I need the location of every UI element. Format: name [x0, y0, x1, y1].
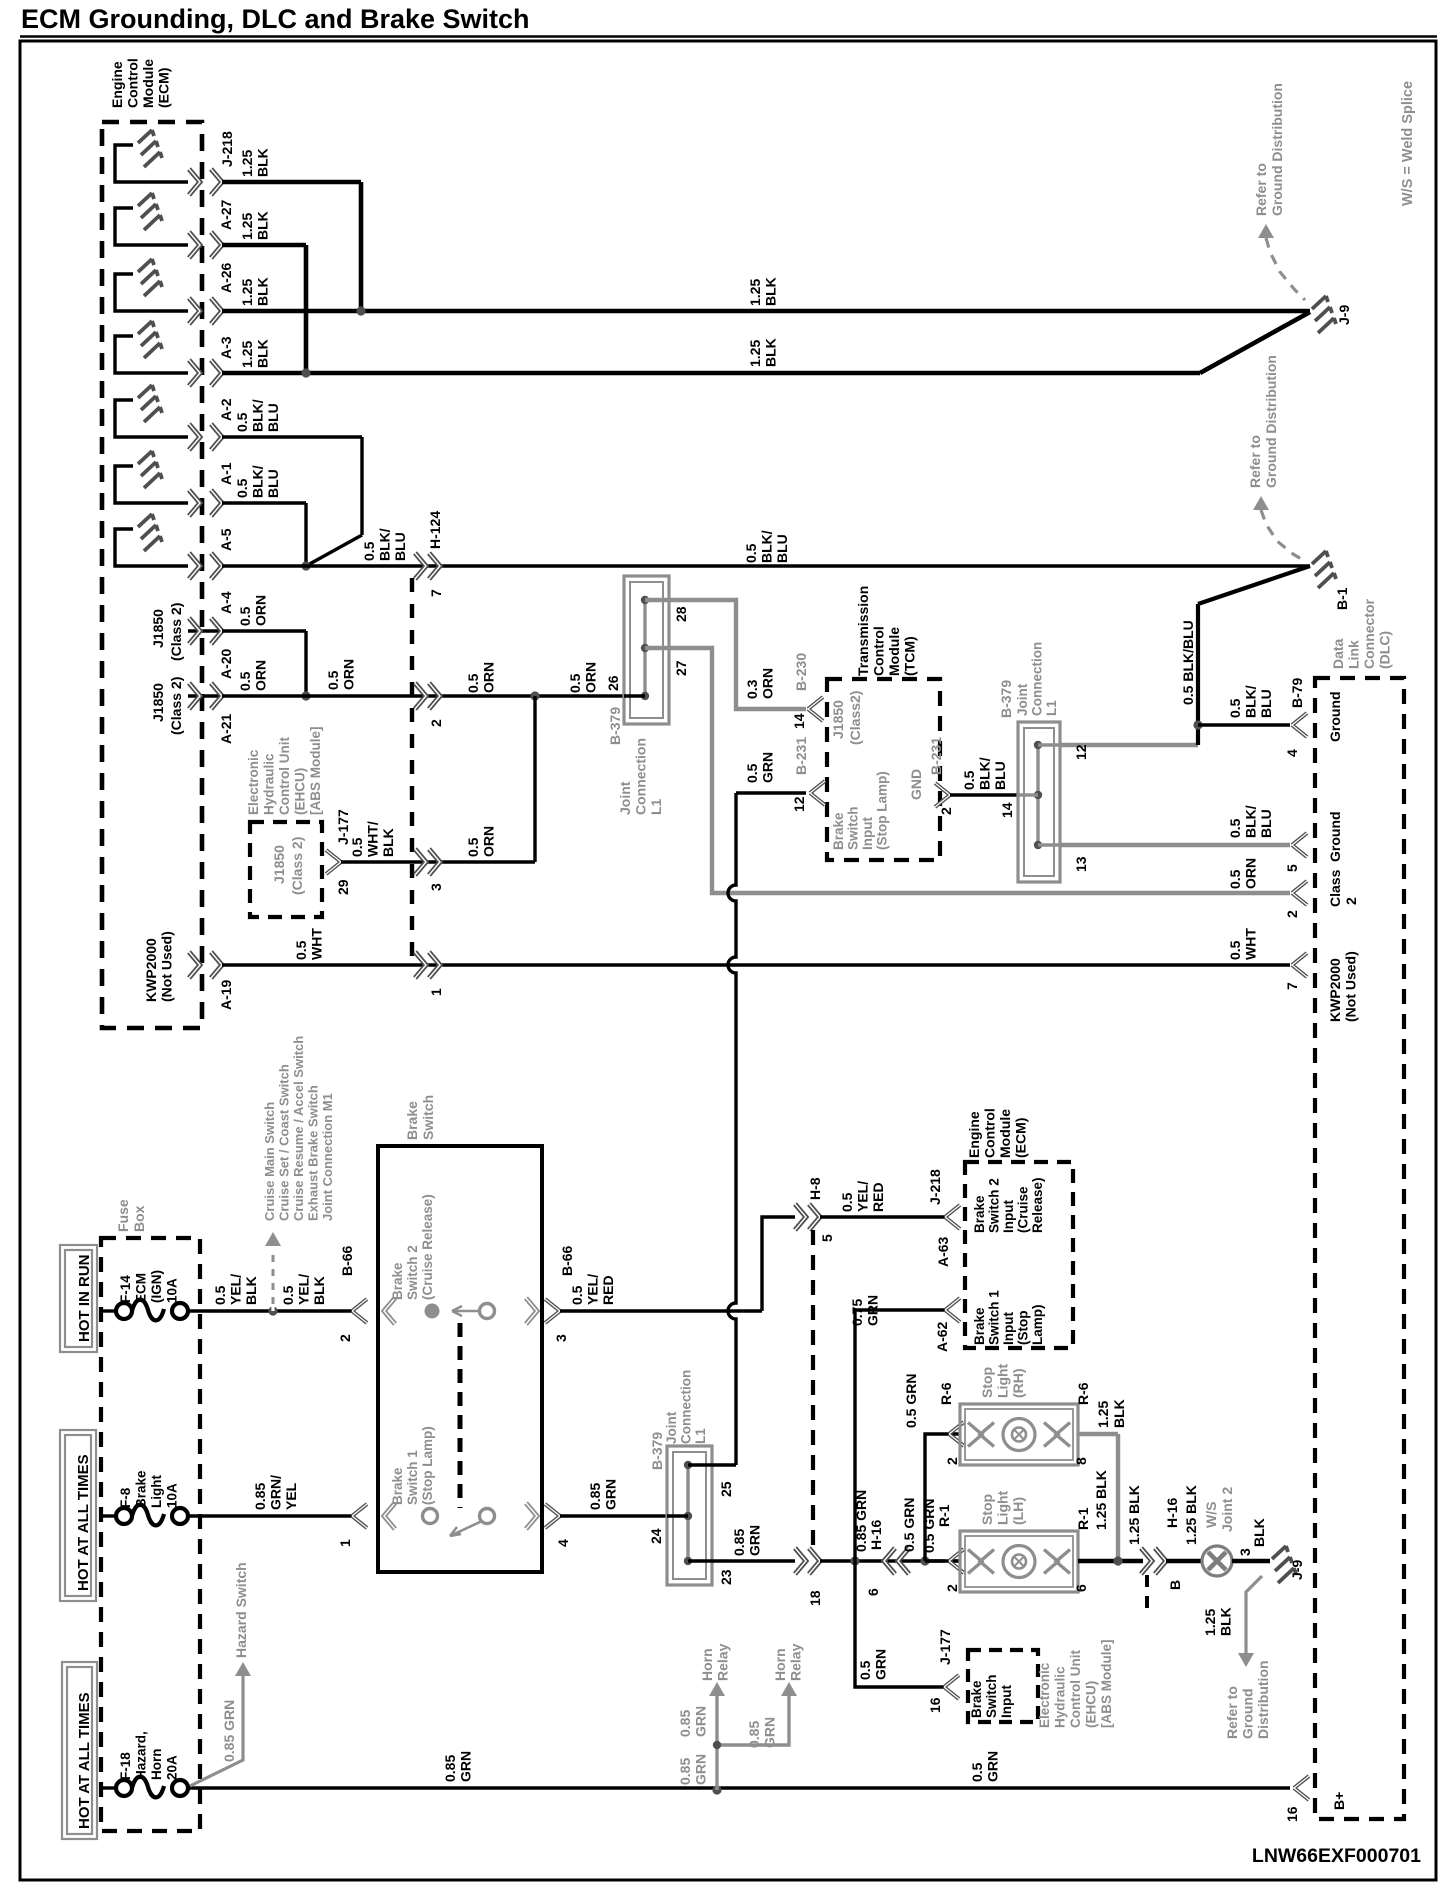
svg-text:(IGN): (IGN): [149, 1270, 164, 1303]
svg-text:BLK: BLK: [311, 1276, 327, 1305]
svg-text:KWP2000: KWP2000: [143, 938, 159, 1002]
svg-text:Light: Light: [995, 1490, 1011, 1525]
svg-text:10A: 10A: [165, 1483, 180, 1508]
svg-text:26: 26: [605, 675, 621, 691]
svg-text:25: 25: [718, 1481, 734, 1497]
svg-text:24: 24: [648, 1528, 664, 1544]
svg-text:Input: Input: [999, 1685, 1014, 1718]
svg-text:Electronic: Electronic: [246, 749, 261, 815]
svg-text:Relay: Relay: [788, 1643, 804, 1681]
svg-text:0.85: 0.85: [746, 1721, 762, 1748]
svg-text:W/S: W/S: [1203, 1502, 1219, 1528]
svg-text:1.25: 1.25: [239, 213, 255, 240]
svg-text:H-124: H-124: [427, 511, 443, 549]
svg-text:Horn: Horn: [149, 1749, 164, 1781]
svg-text:ORN: ORN: [1243, 858, 1259, 889]
svg-text:B-66: B-66: [339, 1245, 355, 1276]
svg-text:A-20: A-20: [218, 648, 234, 679]
svg-text:Connection: Connection: [633, 738, 649, 815]
svg-text:BLK/: BLK/: [250, 465, 266, 498]
svg-text:Stop: Stop: [979, 1367, 995, 1398]
svg-text:F-8: F-8: [118, 1487, 133, 1508]
svg-text:0.85: 0.85: [442, 1755, 458, 1782]
svg-text:GRN: GRN: [985, 1751, 1001, 1782]
svg-text:Control: Control: [125, 58, 141, 108]
svg-text:[ABS Module]: [ABS Module]: [308, 727, 323, 816]
svg-text:ORN: ORN: [341, 659, 357, 690]
svg-text:0.85: 0.85: [677, 1710, 693, 1737]
svg-text:GRN: GRN: [693, 1706, 709, 1737]
svg-text:Control Unit: Control Unit: [1068, 1650, 1083, 1728]
svg-text:Joint Connection M1: Joint Connection M1: [320, 1093, 335, 1221]
svg-text:Hazard Switch: Hazard Switch: [233, 1562, 249, 1658]
svg-text:18: 18: [807, 1590, 823, 1606]
svg-text:BLK: BLK: [1218, 1607, 1234, 1636]
svg-text:H-16: H-16: [1164, 1497, 1180, 1528]
svg-text:0.5: 0.5: [212, 1285, 228, 1305]
svg-text:1.25: 1.25: [1202, 1609, 1218, 1636]
svg-text:1.25: 1.25: [747, 279, 763, 306]
svg-text:3: 3: [553, 1334, 569, 1342]
svg-text:BLK: BLK: [255, 339, 271, 368]
svg-text:BLK/: BLK/: [377, 528, 393, 561]
svg-text:0.5: 0.5: [234, 412, 250, 432]
svg-text:L1: L1: [648, 798, 664, 815]
svg-text:(EHCU): (EHCU): [1084, 1681, 1099, 1728]
svg-text:GRN: GRN: [603, 1479, 619, 1510]
svg-text:(Class 2): (Class 2): [168, 677, 184, 735]
svg-text:BLK: BLK: [255, 148, 271, 177]
svg-text:Joint: Joint: [617, 781, 633, 815]
svg-text:BLK/: BLK/: [1243, 805, 1259, 838]
svg-text:H-16: H-16: [868, 1519, 884, 1550]
svg-text:B-231: B-231: [793, 737, 809, 775]
svg-text:29: 29: [335, 879, 351, 895]
svg-text:0.5: 0.5: [361, 541, 377, 561]
svg-text:0.5: 0.5: [465, 673, 481, 693]
svg-text:Hydraulic: Hydraulic: [262, 753, 277, 815]
svg-text:2: 2: [428, 719, 444, 727]
svg-text:GRN: GRN: [747, 1525, 763, 1556]
svg-text:0.5: 0.5: [280, 1285, 296, 1305]
svg-text:6: 6: [1073, 1584, 1089, 1592]
svg-text:ORN: ORN: [583, 662, 599, 693]
svg-text:Light: Light: [149, 1475, 164, 1508]
svg-text:0.5: 0.5: [569, 1285, 585, 1305]
svg-text:0.85: 0.85: [587, 1483, 603, 1510]
svg-text:(Stop Lamp): (Stop Lamp): [875, 771, 890, 850]
svg-text:Link: Link: [1346, 640, 1362, 669]
svg-text:GRN: GRN: [458, 1751, 474, 1782]
svg-text:Brake: Brake: [390, 1262, 405, 1300]
svg-text:1.25: 1.25: [747, 340, 763, 367]
svg-text:B-231: B-231: [928, 737, 944, 775]
svg-text:(Cruise: (Cruise: [1016, 1186, 1031, 1233]
svg-text:0.5: 0.5: [839, 1192, 855, 1212]
svg-text:Brake: Brake: [831, 812, 846, 850]
svg-text:Switch 1: Switch 1: [405, 1450, 420, 1505]
svg-text:W/S = Weld Splice: W/S = Weld Splice: [1400, 81, 1416, 206]
svg-text:B-379: B-379: [649, 1432, 665, 1470]
svg-text:Lamp): Lamp): [1030, 1305, 1045, 1346]
svg-text:28: 28: [673, 606, 689, 622]
svg-text:3: 3: [428, 883, 444, 891]
svg-text:Connector: Connector: [1361, 598, 1377, 669]
svg-text:Brake: Brake: [969, 1680, 984, 1718]
svg-text:Input: Input: [1001, 1312, 1016, 1345]
svg-text:14: 14: [791, 713, 807, 729]
svg-text:A-27: A-27: [218, 199, 234, 230]
svg-text:A-3: A-3: [218, 336, 234, 359]
svg-text:L1: L1: [1044, 700, 1059, 716]
svg-text:A-1: A-1: [218, 462, 234, 485]
svg-text:23: 23: [718, 1569, 734, 1585]
svg-text:12: 12: [791, 796, 807, 812]
svg-text:Electronic: Electronic: [1037, 1662, 1052, 1728]
svg-text:YEL/: YEL/: [228, 1274, 244, 1305]
svg-text:BLK: BLK: [763, 277, 779, 306]
svg-text:0.5: 0.5: [293, 940, 309, 960]
svg-text:1.25: 1.25: [239, 341, 255, 368]
svg-text:Module: Module: [886, 627, 902, 676]
svg-text:GRN: GRN: [760, 752, 776, 783]
svg-text:5: 5: [1284, 864, 1300, 872]
svg-text:GRN: GRN: [873, 1649, 889, 1680]
svg-text:Cruise Resume / Accel Switch: Cruise Resume / Accel Switch: [291, 1036, 306, 1221]
svg-text:R-6: R-6: [938, 1382, 954, 1405]
svg-text:KWP2000: KWP2000: [1327, 958, 1343, 1022]
svg-text:0.5 GRN: 0.5 GRN: [903, 1374, 919, 1428]
svg-text:14: 14: [999, 802, 1015, 818]
svg-text:B-1: B-1: [1334, 587, 1350, 610]
svg-text:4: 4: [1284, 749, 1300, 757]
svg-text:Hazard,: Hazard,: [134, 1731, 149, 1780]
svg-text:Module: Module: [997, 1109, 1013, 1158]
svg-text:Box: Box: [131, 1205, 147, 1232]
svg-text:Refer to: Refer to: [1224, 1686, 1240, 1739]
svg-text:BLU: BLU: [265, 469, 281, 498]
svg-text:0.5: 0.5: [567, 673, 583, 693]
svg-text:0.5: 0.5: [1227, 818, 1243, 838]
svg-text:Module: Module: [140, 59, 156, 108]
svg-text:B: B: [1167, 1580, 1183, 1590]
svg-text:Input: Input: [1001, 1200, 1016, 1233]
svg-text:Transmission: Transmission: [855, 586, 871, 676]
svg-text:16: 16: [927, 1697, 943, 1713]
svg-text:0.85: 0.85: [677, 1758, 693, 1785]
svg-text:BLU: BLU: [774, 534, 790, 563]
svg-text:A-5: A-5: [218, 528, 234, 551]
svg-text:Control Unit: Control Unit: [277, 737, 292, 815]
svg-text:6: 6: [865, 1588, 881, 1596]
svg-text:Switch: Switch: [420, 1095, 436, 1140]
svg-text:R-1: R-1: [936, 1504, 952, 1527]
svg-text:Control: Control: [871, 626, 887, 676]
svg-text:0.5: 0.5: [744, 763, 760, 783]
svg-text:J-177: J-177: [937, 1629, 953, 1665]
svg-text:YEL/: YEL/: [585, 1274, 601, 1305]
svg-text:Switch 1: Switch 1: [987, 1290, 1002, 1345]
svg-text:WHT: WHT: [1243, 928, 1259, 960]
svg-text:GRN: GRN: [865, 1295, 881, 1326]
svg-text:Brake: Brake: [134, 1470, 149, 1508]
svg-text:B+: B+: [1331, 1792, 1347, 1810]
svg-text:WHT: WHT: [309, 928, 325, 960]
svg-text:Hydraulic: Hydraulic: [1053, 1666, 1068, 1728]
svg-text:YEL/: YEL/: [855, 1181, 871, 1212]
svg-text:A-2: A-2: [218, 398, 234, 421]
svg-text:B-230: B-230: [793, 653, 809, 691]
svg-text:Exhaust Brake Switch: Exhaust Brake Switch: [306, 1085, 321, 1221]
svg-text:ORN: ORN: [253, 660, 269, 691]
svg-text:0.5: 0.5: [237, 671, 253, 691]
svg-text:10A: 10A: [165, 1278, 180, 1303]
svg-text:RED: RED: [600, 1275, 616, 1305]
svg-text:0.5: 0.5: [961, 770, 977, 790]
svg-text:0.85 GRN: 0.85 GRN: [853, 1490, 869, 1552]
svg-text:Cruise Set / Coast Switch: Cruise Set / Coast Switch: [277, 1064, 292, 1221]
svg-text:Ground: Ground: [1327, 691, 1343, 742]
svg-text:A-19: A-19: [218, 979, 234, 1010]
svg-text:8: 8: [1073, 1457, 1089, 1465]
svg-text:Horn: Horn: [772, 1648, 788, 1681]
svg-text:0.5: 0.5: [234, 478, 250, 498]
svg-text:J-9: J-9: [1336, 305, 1352, 325]
svg-text:0.5: 0.5: [1227, 698, 1243, 718]
svg-text:R-1: R-1: [1075, 1507, 1091, 1530]
svg-text:0.5: 0.5: [1227, 869, 1243, 889]
svg-text:F-14: F-14: [118, 1275, 133, 1303]
svg-text:16: 16: [1284, 1806, 1300, 1822]
svg-text:ECM Grounding, DLC and Brake S: ECM Grounding, DLC and Brake Switch: [21, 4, 530, 34]
svg-text:BLK/: BLK/: [250, 399, 266, 432]
svg-text:BLU: BLU: [1258, 689, 1274, 718]
svg-text:BLK: BLK: [243, 1276, 259, 1305]
svg-text:J-218: J-218: [927, 1169, 943, 1205]
svg-text:7: 7: [1284, 982, 1300, 990]
svg-text:(Cruise Release): (Cruise Release): [420, 1194, 435, 1300]
svg-text:[ABS Module]: [ABS Module]: [1099, 1640, 1114, 1729]
svg-text:H-8: H-8: [807, 1177, 823, 1200]
svg-text:Joint: Joint: [1015, 683, 1030, 716]
svg-text:1.25: 1.25: [1095, 1401, 1111, 1428]
svg-text:Joint: Joint: [664, 1411, 679, 1444]
svg-text:(Stop Lamp): (Stop Lamp): [420, 1426, 435, 1505]
svg-text:2: 2: [337, 1334, 353, 1342]
svg-text:BLU: BLU: [392, 532, 408, 561]
svg-text:Brake: Brake: [972, 1195, 987, 1233]
svg-text:1.25 BLK: 1.25 BLK: [1183, 1485, 1199, 1545]
svg-text:A-4: A-4: [218, 591, 234, 614]
svg-text:Joint 2: Joint 2: [1219, 1487, 1235, 1532]
svg-text:0.75: 0.75: [849, 1299, 865, 1326]
svg-text:J1850: J1850: [150, 609, 166, 648]
svg-text:12: 12: [1073, 744, 1089, 760]
svg-text:5: 5: [819, 1234, 835, 1242]
svg-text:27: 27: [673, 660, 689, 676]
svg-text:0.85: 0.85: [731, 1529, 747, 1556]
svg-text:0.5: 0.5: [743, 543, 759, 563]
svg-text:3: 3: [1237, 1548, 1253, 1556]
svg-text:B-79: B-79: [1289, 677, 1305, 708]
svg-text:BLK/: BLK/: [977, 757, 993, 790]
svg-text:YEL: YEL: [283, 1482, 299, 1510]
svg-text:BLK: BLK: [255, 211, 271, 240]
svg-text:2: 2: [944, 1457, 960, 1465]
svg-text:(DLC): (DLC): [1377, 631, 1393, 669]
svg-text:ECM: ECM: [134, 1273, 149, 1303]
svg-text:(Stop: (Stop: [1016, 1311, 1031, 1346]
svg-text:Ground Distribution: Ground Distribution: [1263, 355, 1279, 488]
svg-text:BLK: BLK: [1251, 1518, 1267, 1547]
svg-text:Connection: Connection: [1030, 642, 1045, 716]
svg-text:Light: Light: [995, 1363, 1011, 1398]
svg-text:A-63: A-63: [935, 1236, 951, 1267]
svg-text:J1850: J1850: [271, 845, 287, 884]
svg-text:1.25: 1.25: [239, 150, 255, 177]
svg-text:A-26: A-26: [218, 262, 234, 293]
svg-text:Control: Control: [982, 1108, 998, 1158]
svg-text:R-6: R-6: [1075, 1382, 1091, 1405]
svg-text:0.5 GRN: 0.5 GRN: [901, 1498, 917, 1552]
svg-text:1.25: 1.25: [239, 279, 255, 306]
svg-text:Release): Release): [1030, 1177, 1045, 1233]
svg-text:Input: Input: [860, 817, 875, 850]
svg-text:2: 2: [938, 807, 954, 815]
svg-text:Ground: Ground: [1240, 1688, 1256, 1739]
svg-text:Horn: Horn: [699, 1648, 715, 1681]
svg-text:LNW66EXF000701: LNW66EXF000701: [1252, 1845, 1421, 1867]
svg-text:Ground: Ground: [1327, 811, 1343, 862]
svg-text:J-218: J-218: [219, 131, 235, 167]
svg-text:0.5: 0.5: [969, 1762, 985, 1782]
svg-text:Ground Distribution: Ground Distribution: [1269, 83, 1285, 216]
svg-text:2: 2: [944, 1584, 960, 1592]
svg-text:ORN: ORN: [760, 668, 776, 699]
svg-text:BLU: BLU: [1258, 809, 1274, 838]
svg-text:HOT IN RUN: HOT IN RUN: [76, 1255, 93, 1343]
svg-text:Switch 2: Switch 2: [987, 1178, 1002, 1233]
svg-text:Engine: Engine: [109, 61, 125, 108]
svg-text:J-9: J-9: [1289, 1560, 1305, 1580]
svg-text:0.5: 0.5: [465, 837, 481, 857]
svg-text:Refer to: Refer to: [1253, 163, 1269, 216]
svg-text:Connection: Connection: [679, 1370, 694, 1444]
svg-text:L1: L1: [693, 1428, 708, 1444]
svg-text:Brake: Brake: [404, 1101, 420, 1140]
svg-text:GRN: GRN: [693, 1754, 709, 1785]
svg-text:(TCM): (TCM): [902, 636, 918, 676]
svg-text:Refer to: Refer to: [1247, 435, 1263, 488]
svg-text:Brake: Brake: [390, 1467, 405, 1505]
svg-text:Fuse: Fuse: [115, 1199, 131, 1232]
svg-text:Engine: Engine: [966, 1111, 982, 1158]
svg-text:Switch 2: Switch 2: [405, 1245, 420, 1300]
svg-text:0.85 GRN: 0.85 GRN: [221, 1700, 237, 1762]
svg-text:(Class2): (Class2): [847, 691, 863, 745]
svg-text:B-379: B-379: [998, 680, 1014, 718]
svg-text:1.25 BLK: 1.25 BLK: [1126, 1485, 1142, 1545]
svg-text:GRN/: GRN/: [268, 1475, 284, 1510]
svg-text:Brake: Brake: [972, 1307, 987, 1345]
svg-text:J1850: J1850: [830, 700, 846, 739]
svg-text:20A: 20A: [165, 1755, 180, 1780]
svg-text:YEL/: YEL/: [296, 1274, 312, 1305]
svg-text:0.5: 0.5: [349, 837, 365, 857]
svg-text:ORN: ORN: [481, 826, 497, 857]
svg-text:0.5: 0.5: [1227, 940, 1243, 960]
svg-text:1: 1: [428, 988, 444, 996]
svg-text:0.5: 0.5: [325, 670, 341, 690]
svg-text:(LH): (LH): [1010, 1497, 1026, 1525]
svg-text:0.5: 0.5: [237, 606, 253, 626]
svg-text:(Not Used): (Not Used): [159, 931, 175, 1002]
svg-text:(ECM): (ECM): [156, 68, 172, 108]
svg-text:RED: RED: [870, 1182, 886, 1212]
svg-text:Switch: Switch: [846, 806, 861, 850]
svg-text:BLK/: BLK/: [1243, 685, 1259, 718]
svg-text:Class: Class: [1327, 869, 1343, 907]
svg-text:Relay: Relay: [715, 1643, 731, 1681]
svg-text:BLK: BLK: [1111, 1399, 1127, 1428]
svg-text:Data: Data: [1330, 638, 1346, 669]
svg-text:GRN: GRN: [762, 1717, 778, 1748]
svg-text:BLK: BLK: [380, 828, 396, 857]
svg-text:A-21: A-21: [218, 713, 234, 744]
svg-text:0.3: 0.3: [744, 679, 760, 699]
svg-text:B-379: B-379: [607, 707, 623, 745]
svg-text:1: 1: [337, 1539, 353, 1547]
svg-text:(Class 2): (Class 2): [289, 837, 305, 895]
svg-text:(EHCU): (EHCU): [293, 768, 308, 815]
svg-text:A-62: A-62: [934, 1321, 950, 1352]
svg-text:7: 7: [428, 589, 444, 597]
svg-text:BLU: BLU: [265, 403, 281, 432]
svg-text:0.5 GRN: 0.5 GRN: [921, 1499, 937, 1553]
svg-text:J1850: J1850: [150, 683, 166, 722]
svg-text:0.5: 0.5: [857, 1660, 873, 1680]
svg-text:Distribution: Distribution: [1255, 1660, 1271, 1739]
svg-text:(Not Used): (Not Used): [1343, 951, 1359, 1022]
svg-text:4: 4: [555, 1539, 571, 1547]
svg-text:BLK/: BLK/: [759, 530, 775, 563]
svg-text:ORN: ORN: [253, 595, 269, 626]
svg-text:Cruise Main Switch: Cruise Main Switch: [262, 1102, 277, 1221]
svg-text:0.85: 0.85: [252, 1483, 268, 1510]
svg-text:(ECM): (ECM): [1013, 1118, 1029, 1158]
svg-text:BLK: BLK: [255, 277, 271, 306]
svg-text:(Class 2): (Class 2): [168, 603, 184, 661]
svg-text:Stop: Stop: [979, 1494, 995, 1525]
svg-text:WHT/: WHT/: [365, 821, 381, 857]
svg-text:ORN: ORN: [481, 662, 497, 693]
svg-text:0.5 BLK/BLU: 0.5 BLK/BLU: [1180, 620, 1196, 705]
svg-text:B-66: B-66: [559, 1245, 575, 1276]
svg-text:HOT AT ALL TIMES: HOT AT ALL TIMES: [75, 1454, 92, 1591]
svg-text:BLU: BLU: [992, 761, 1008, 790]
svg-text:HOT AT ALL TIMES: HOT AT ALL TIMES: [76, 1692, 93, 1829]
svg-text:F-18: F-18: [118, 1752, 133, 1780]
svg-text:13: 13: [1073, 856, 1089, 872]
svg-text:GND: GND: [908, 769, 924, 800]
svg-text:(RH): (RH): [1010, 1368, 1026, 1398]
svg-text:Switch: Switch: [984, 1674, 999, 1718]
svg-text:2: 2: [1343, 897, 1359, 905]
svg-text:1.25 BLK: 1.25 BLK: [1093, 1470, 1109, 1530]
svg-text:BLK: BLK: [763, 338, 779, 367]
svg-text:2: 2: [1284, 910, 1300, 918]
